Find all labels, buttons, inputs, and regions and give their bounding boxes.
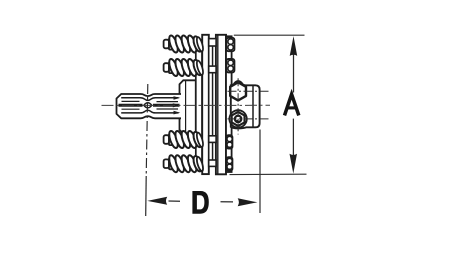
nut centerline horizontal (228, 118, 269, 120)
bolt bar row2 (209, 66, 216, 73)
dim A top extension line (234, 34, 305, 36)
spline line upper (121, 98, 178, 101)
waist lens (144, 103, 152, 108)
hex nut with washer on yoke (229, 110, 246, 127)
nut stack row3 (226, 135, 232, 148)
spring bolt row4 (164, 154, 205, 173)
label A (285, 94, 299, 115)
hub boss (180, 80, 196, 134)
spring bolt row2 (164, 58, 205, 77)
pressure plate right (216, 35, 226, 175)
plate strip S0 (196, 40, 202, 166)
dim A arrow up (290, 36, 298, 56)
dim D line right arrow (221, 201, 234, 203)
main axis centerline (102, 104, 271, 106)
bolt vertical centerline (237, 78, 239, 134)
hex bolt on yoke (230, 82, 246, 100)
dim D line left arrow (147, 197, 167, 205)
spline line lower (121, 110, 178, 113)
yoke clamp bracket (231, 81, 260, 128)
nut stack row2 (226, 59, 234, 72)
spline middle thick band (119, 104, 180, 107)
spring bolt row3 (164, 130, 205, 149)
bolt bar row4 (209, 160, 216, 166)
bolt centerline horizontal (228, 90, 269, 92)
spring bolt row1 (164, 35, 205, 54)
splined shaft (117, 94, 182, 118)
bolt bar row3 (209, 136, 216, 143)
extra thin spline lines (122, 101, 179, 109)
pressure plate left (202, 35, 209, 174)
bolt bar row1 (209, 39, 216, 46)
dim A line (293, 53, 295, 93)
nut stack row1 (226, 38, 234, 51)
label D (192, 191, 208, 214)
shaft vertical centerline / D extension (146, 84, 148, 176)
friction disc strips (209, 45, 213, 166)
dim D right extension line (259, 130, 261, 214)
cover column right (226, 36, 232, 172)
nut stack row4 (226, 157, 232, 170)
dim A bottom extension line (230, 173, 307, 175)
dim A arrow down (290, 154, 298, 174)
spline end wedges (173, 96, 181, 114)
